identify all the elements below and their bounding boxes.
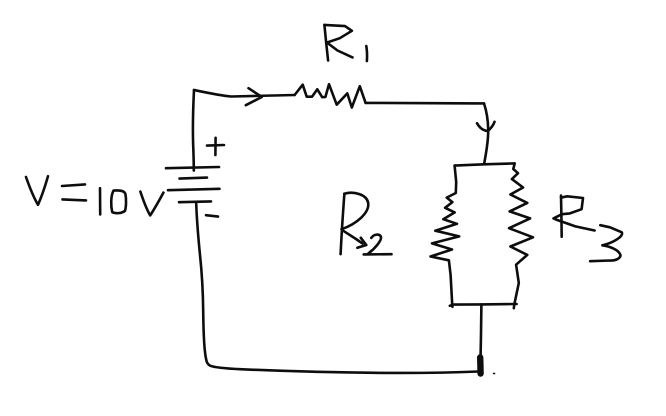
- battery V1 : plate 3 long: [168, 189, 220, 190]
- battery V1 : plate 1 long: [166, 167, 219, 168]
- wire top horizontal (corner to R1): [194, 90, 295, 97]
- stray speck: [494, 372, 495, 374]
- resistor R2 (left vertical zigzag): [431, 166, 460, 305]
- junction blob: [477, 358, 484, 374]
- node: bottom of parallel pair (wire): [450, 304, 517, 306]
- wire top-right horizontal (R1 to corner): [366, 102, 484, 105]
- label R2 : letter R: [341, 194, 345, 255]
- label V=10V : digit 1: [99, 188, 102, 214]
- wire bottom horizontal: [206, 360, 478, 373]
- battery V1 : plate 4 short: [179, 200, 211, 203]
- node: top of parallel pair (wire): [455, 163, 515, 165]
- label R2 : R leg with arrowhead: [342, 230, 362, 243]
- R3 lead overshoot: [512, 304, 515, 308]
- label R1 : subscript 1: [365, 46, 368, 61]
- label R3 : letter R: [560, 196, 563, 237]
- resistor R3 (right vertical zigzag): [509, 163, 533, 304]
- label R1 : letter R: [324, 25, 328, 61]
- label V=10V : equals: [62, 184, 85, 186]
- battery V1 : plate 2 short: [180, 178, 208, 179]
- label V=10V : digit 0: [111, 190, 126, 213]
- wire below parallel pair: [479, 304, 482, 356]
- resistor R1: [295, 84, 366, 107]
- label R3 : subscript 3: [590, 225, 622, 261]
- wire left vertical (bottom corner up to battery -): [196, 204, 206, 360]
- wire right vertical with bend: [484, 103, 488, 163]
- arrow current direction right: [246, 88, 262, 105]
- label R2 : subscript 2: [369, 235, 382, 254]
- battery V1 : minus sign: [206, 215, 218, 216]
- battery V1 : plus sign: [207, 144, 224, 147]
- label V=10V : letter V: [26, 176, 48, 205]
- R2 lead overshoot: [451, 304, 454, 307]
- wire left-top vertical (battery + to top-left corner): [193, 90, 194, 171]
- label V=10V : letter V (unit): [140, 192, 163, 216]
- arrow current direction down: [477, 122, 495, 131]
